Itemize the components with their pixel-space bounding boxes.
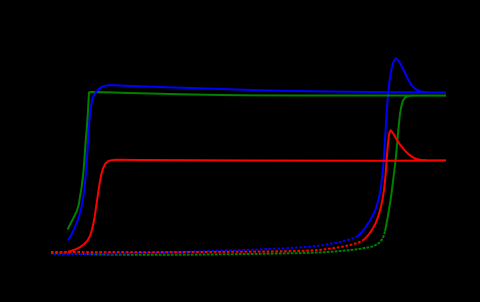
curve green-dashed steep rise (set B, species green)	[385, 96, 446, 232]
curve red-solid (set A, species red)	[68, 160, 446, 252]
curve blue-dashed baseline (set B, species blue)	[51, 236, 358, 254]
curve red-dashed peak (set B, species red)	[364, 130, 447, 240]
curve green-dashed baseline (set B, species green)	[51, 231, 385, 255]
curve blue-dashed peak (set B, species blue)	[358, 58, 447, 236]
curve blue-solid (set A, species blue)	[68, 85, 446, 240]
curve red-dashed baseline (set B, species red)	[51, 240, 364, 252]
curve green-solid (set A, species green)	[68, 92, 446, 230]
